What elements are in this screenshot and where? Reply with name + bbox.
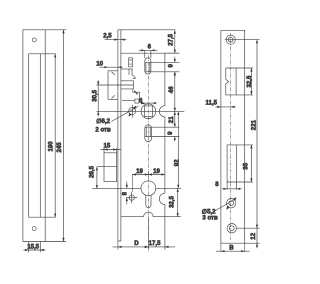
faceplate edge-on <box>118 30 175 241</box>
dimension 221 <box>250 40 258 229</box>
dimension 8 right view <box>215 181 241 190</box>
dimension 8 left of cylinder <box>121 182 128 205</box>
leader diameter 5,2 <box>216 197 237 210</box>
svg-text:2 отв: 2 отв <box>95 127 111 134</box>
euro center left extension <box>92 187 141 189</box>
leader 8 to hub <box>141 102 145 104</box>
svg-text:21: 21 <box>168 116 175 123</box>
svg-text:19: 19 <box>136 168 143 175</box>
top countersunk hole <box>225 35 237 44</box>
lock case outline <box>121 53 181 250</box>
dimension 15,5 <box>24 242 46 253</box>
svg-text:10: 10 <box>96 60 103 67</box>
svg-text:15,5: 15,5 <box>27 243 39 250</box>
svg-text:92: 92 <box>173 159 180 166</box>
dimension D and 17,5 <box>113 217 176 250</box>
case top right extension <box>165 52 179 54</box>
dimension 27,5 <box>167 30 176 53</box>
svg-text:19: 19 <box>153 168 160 175</box>
euro profile cylinder hole <box>141 181 156 208</box>
svg-text:190: 190 <box>48 141 55 152</box>
faceplate outline <box>23 30 66 242</box>
vertical main centerline <box>147 56 149 253</box>
latch front box <box>108 71 118 100</box>
lower roller capsule <box>145 125 180 142</box>
dimension 46 <box>168 72 176 112</box>
dimension 190 <box>48 54 57 217</box>
dimension 32,5 right view <box>236 68 253 95</box>
svg-text:3 отв: 3 отв <box>202 214 218 221</box>
svg-text:∅6,2: ∅6,2 <box>96 118 110 125</box>
svg-text:221: 221 <box>250 119 257 130</box>
faceplate slot <box>29 54 56 217</box>
label 5,2 3 otv <box>202 209 218 222</box>
plate centerline <box>230 33 232 240</box>
svg-text:9: 9 <box>167 131 174 135</box>
hole centerline up to 19 dim <box>131 175 133 192</box>
dimension 26,5 <box>88 165 98 188</box>
dimension 10 <box>96 60 122 68</box>
svg-text:35: 35 <box>243 162 250 169</box>
svg-text:17,5: 17,5 <box>149 240 161 247</box>
dimension 35 <box>237 145 253 182</box>
dimension B <box>216 243 250 252</box>
top roller capsule <box>145 58 180 74</box>
svg-text:32,5: 32,5 <box>246 75 253 87</box>
dimension 12 <box>245 228 260 248</box>
middle hole 5,2 <box>227 199 236 208</box>
svg-text:46: 46 <box>168 86 175 93</box>
top hole center extension <box>237 39 260 41</box>
svg-text:11,5: 11,5 <box>206 100 218 107</box>
dimension 32,5 middle view <box>169 188 179 216</box>
dimension 21 <box>168 111 176 127</box>
deadbolt <box>97 153 117 182</box>
svg-text:9: 9 <box>168 64 175 68</box>
dimension 245 <box>56 30 65 242</box>
dimension 9 top <box>168 57 176 78</box>
hub centerline <box>97 110 185 112</box>
dimension 2,5 <box>103 33 126 41</box>
svg-text:26,5: 26,5 <box>88 165 95 177</box>
dimension 6 <box>139 44 158 58</box>
euro center right extension <box>156 187 181 189</box>
faceplate top screw hole <box>32 38 36 42</box>
svg-text:30,5: 30,5 <box>91 89 98 101</box>
latch window cutout <box>226 68 236 95</box>
dimension 15 <box>101 142 121 152</box>
follower hub <box>141 104 156 119</box>
svg-text:8: 8 <box>215 181 219 188</box>
svg-text:15: 15 <box>104 142 111 149</box>
square 8 dimension <box>135 98 157 105</box>
svg-text:2,5: 2,5 <box>103 33 112 40</box>
svg-text:12: 12 <box>250 232 257 239</box>
svg-text:8: 8 <box>121 191 128 195</box>
svg-text:D: D <box>134 240 139 247</box>
strike plate outline <box>221 30 245 243</box>
dimension 92 <box>173 111 180 188</box>
label 6,2 2 otv <box>95 118 111 133</box>
svg-text:32,5: 32,5 <box>169 195 176 207</box>
bottom countersunk hole <box>227 224 259 233</box>
dimension 19 19 <box>132 168 165 178</box>
svg-text:B: B <box>229 244 234 251</box>
svg-text:27,5: 27,5 <box>167 33 174 45</box>
upper 6,2 hole <box>129 105 136 118</box>
faceplate bottom screw hole <box>32 227 36 231</box>
stack mid line / 30,5 extension <box>97 84 134 86</box>
latch mechanism internals <box>121 58 140 101</box>
leader diameter 6,2 <box>112 106 139 122</box>
dimension 30,5 <box>91 80 99 116</box>
svg-text:6: 6 <box>148 44 152 51</box>
long slot <box>227 145 237 182</box>
dimension 9 lower <box>167 131 176 142</box>
dimension 11,5 <box>206 100 237 108</box>
lower 6,2 hole <box>126 192 137 204</box>
svg-text:245: 245 <box>56 142 63 153</box>
